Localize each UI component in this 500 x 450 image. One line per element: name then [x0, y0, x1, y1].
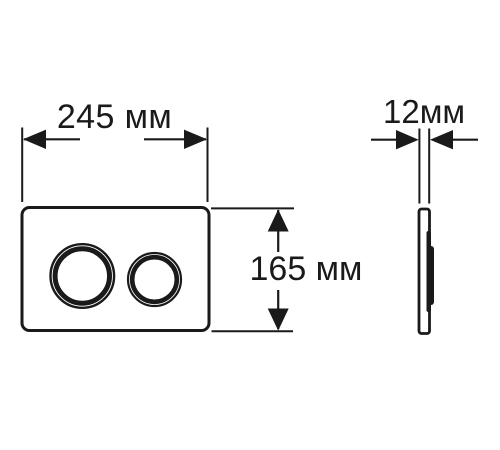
side view button bulge [427, 246, 435, 305]
height dimension extension line top [211, 207, 294, 209]
right button outer ring [128, 253, 181, 306]
height dimension arrowhead up [268, 209, 289, 231]
svg-text:165 мм: 165 мм [250, 250, 363, 288]
width dimension arrowhead left [23, 130, 46, 149]
width dimension line left segment [24, 138, 80, 140]
side view plate outline [419, 209, 430, 334]
svg-text:245 мм: 245 мм [57, 98, 172, 136]
thickness dimension arrowhead left pointing right [396, 130, 419, 149]
svg-text:12мм: 12мм [383, 93, 465, 130]
left button inner ring [55, 249, 109, 303]
height dimension line upper segment [277, 210, 279, 252]
thickness dimension extension line right [428, 129, 430, 204]
thickness dimension line left segment [371, 139, 398, 141]
width dimension arrowhead right [184, 130, 207, 149]
thickness dimension extension line left [418, 129, 420, 204]
side view button step [427, 231, 432, 312]
front plate [22, 208, 209, 331]
right button inner ring [132, 257, 177, 302]
thickness dimension arrowhead right pointing left [430, 130, 453, 149]
height dimension line lower segment [277, 290, 279, 329]
width dimension extension line left [21, 128, 23, 203]
thickness dimension line right segment [452, 139, 478, 141]
height dimension extension line bottom [212, 330, 294, 332]
width dimension line right segment [144, 138, 206, 140]
width dimension extension line right [207, 128, 209, 203]
height dimension arrowhead down [268, 309, 289, 331]
left button outer ring [51, 244, 115, 308]
